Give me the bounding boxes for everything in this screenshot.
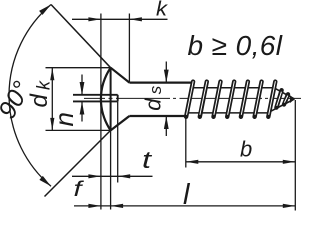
tip cone lower edge: [268, 99, 295, 113]
svg-text:b: b: [240, 137, 252, 162]
dimension n: dimension line above slot with down arrow: [81, 75, 83, 96]
dimension d_k: extension line top: [46, 67, 111, 69]
dimension d_k: extension line bottom: [46, 129, 111, 131]
screw head: cone upper edge: [111, 68, 130, 83]
svg-text:d: d: [141, 98, 166, 111]
svg-text:t: t: [142, 147, 153, 174]
construction line lower (cone surface extended, 45deg): [45, 130, 111, 196]
label n (rotated): [49, 112, 79, 126]
dimension b: dimension line with inside arrows: [186, 161, 295, 163]
svg-text:k: k: [34, 80, 54, 90]
screw head: cone lower edge: [111, 116, 130, 130]
dimension n: dimension line below slot with up arrow: [81, 102, 83, 122]
dimension d_s: lower dimension line with up arrow: [165, 116, 167, 136]
svg-text:s: s: [146, 85, 165, 94]
construction line upper (cone surface extended, 45deg): [51, 5, 111, 68]
svg-text:n: n: [49, 112, 79, 126]
dimension k: extension line right (cone-shank junction): [128, 14, 130, 83]
dimension k: extension continuation below slot to t/f dims: [100, 102, 102, 210]
screw head: rim chord line: [110, 68, 112, 131]
svg-text:d: d: [26, 94, 53, 108]
slot (drive) top line with left extension for n: [73, 94, 118, 96]
dimension k: extension line left (dome apex plane, long): [100, 14, 102, 95]
label d_s (rotated): [141, 85, 166, 111]
dimension k: dimension line with outside arrows: [72, 18, 168, 20]
dimension d_k: dimension line with inside arrows: [51, 68, 53, 131]
slot bottom line with left extension for n: [73, 100, 118, 102]
dimension f: extension line rim plane (below head): [110, 130, 112, 209]
dimension d_s: upper dimension line with down arrow: [165, 62, 167, 83]
dimension b: extension line left (thread start): [185, 119, 187, 168]
thread crest loops (dark band with white core): [186, 82, 288, 117]
svg-text:k: k: [156, 0, 168, 20]
dimension l: dimension line from rim plane to tip: [111, 205, 296, 207]
centerline (screw axis): [84, 97, 301, 99]
90 degree angle arc with arrows: [9, 5, 51, 187]
shank bottom edge: [129, 115, 186, 117]
svg-text:f: f: [74, 178, 85, 201]
svg-text:b ≥ 0,6l: b ≥ 0,6l: [188, 30, 283, 61]
thread root line bottom: [189, 112, 268, 114]
tip point (solid): [290, 95, 295, 103]
label d_k (rotated): [26, 80, 54, 108]
tip cone upper edge: [274, 88, 294, 99]
dimension t: extension line for slot bottom: [117, 102, 119, 183]
dimension l: extension line right (screw tip): [294, 100, 296, 211]
screw head: dome (raised countersunk, arc): [101, 68, 111, 131]
dimension f: dimension line with outside arrows (left part): [74, 205, 111, 207]
slot bottom cap: [117, 95, 119, 102]
thread root line top: [194, 87, 274, 89]
dimension t: dimension line with outside arrows: [72, 175, 153, 177]
shank top edge: [129, 81, 191, 83]
